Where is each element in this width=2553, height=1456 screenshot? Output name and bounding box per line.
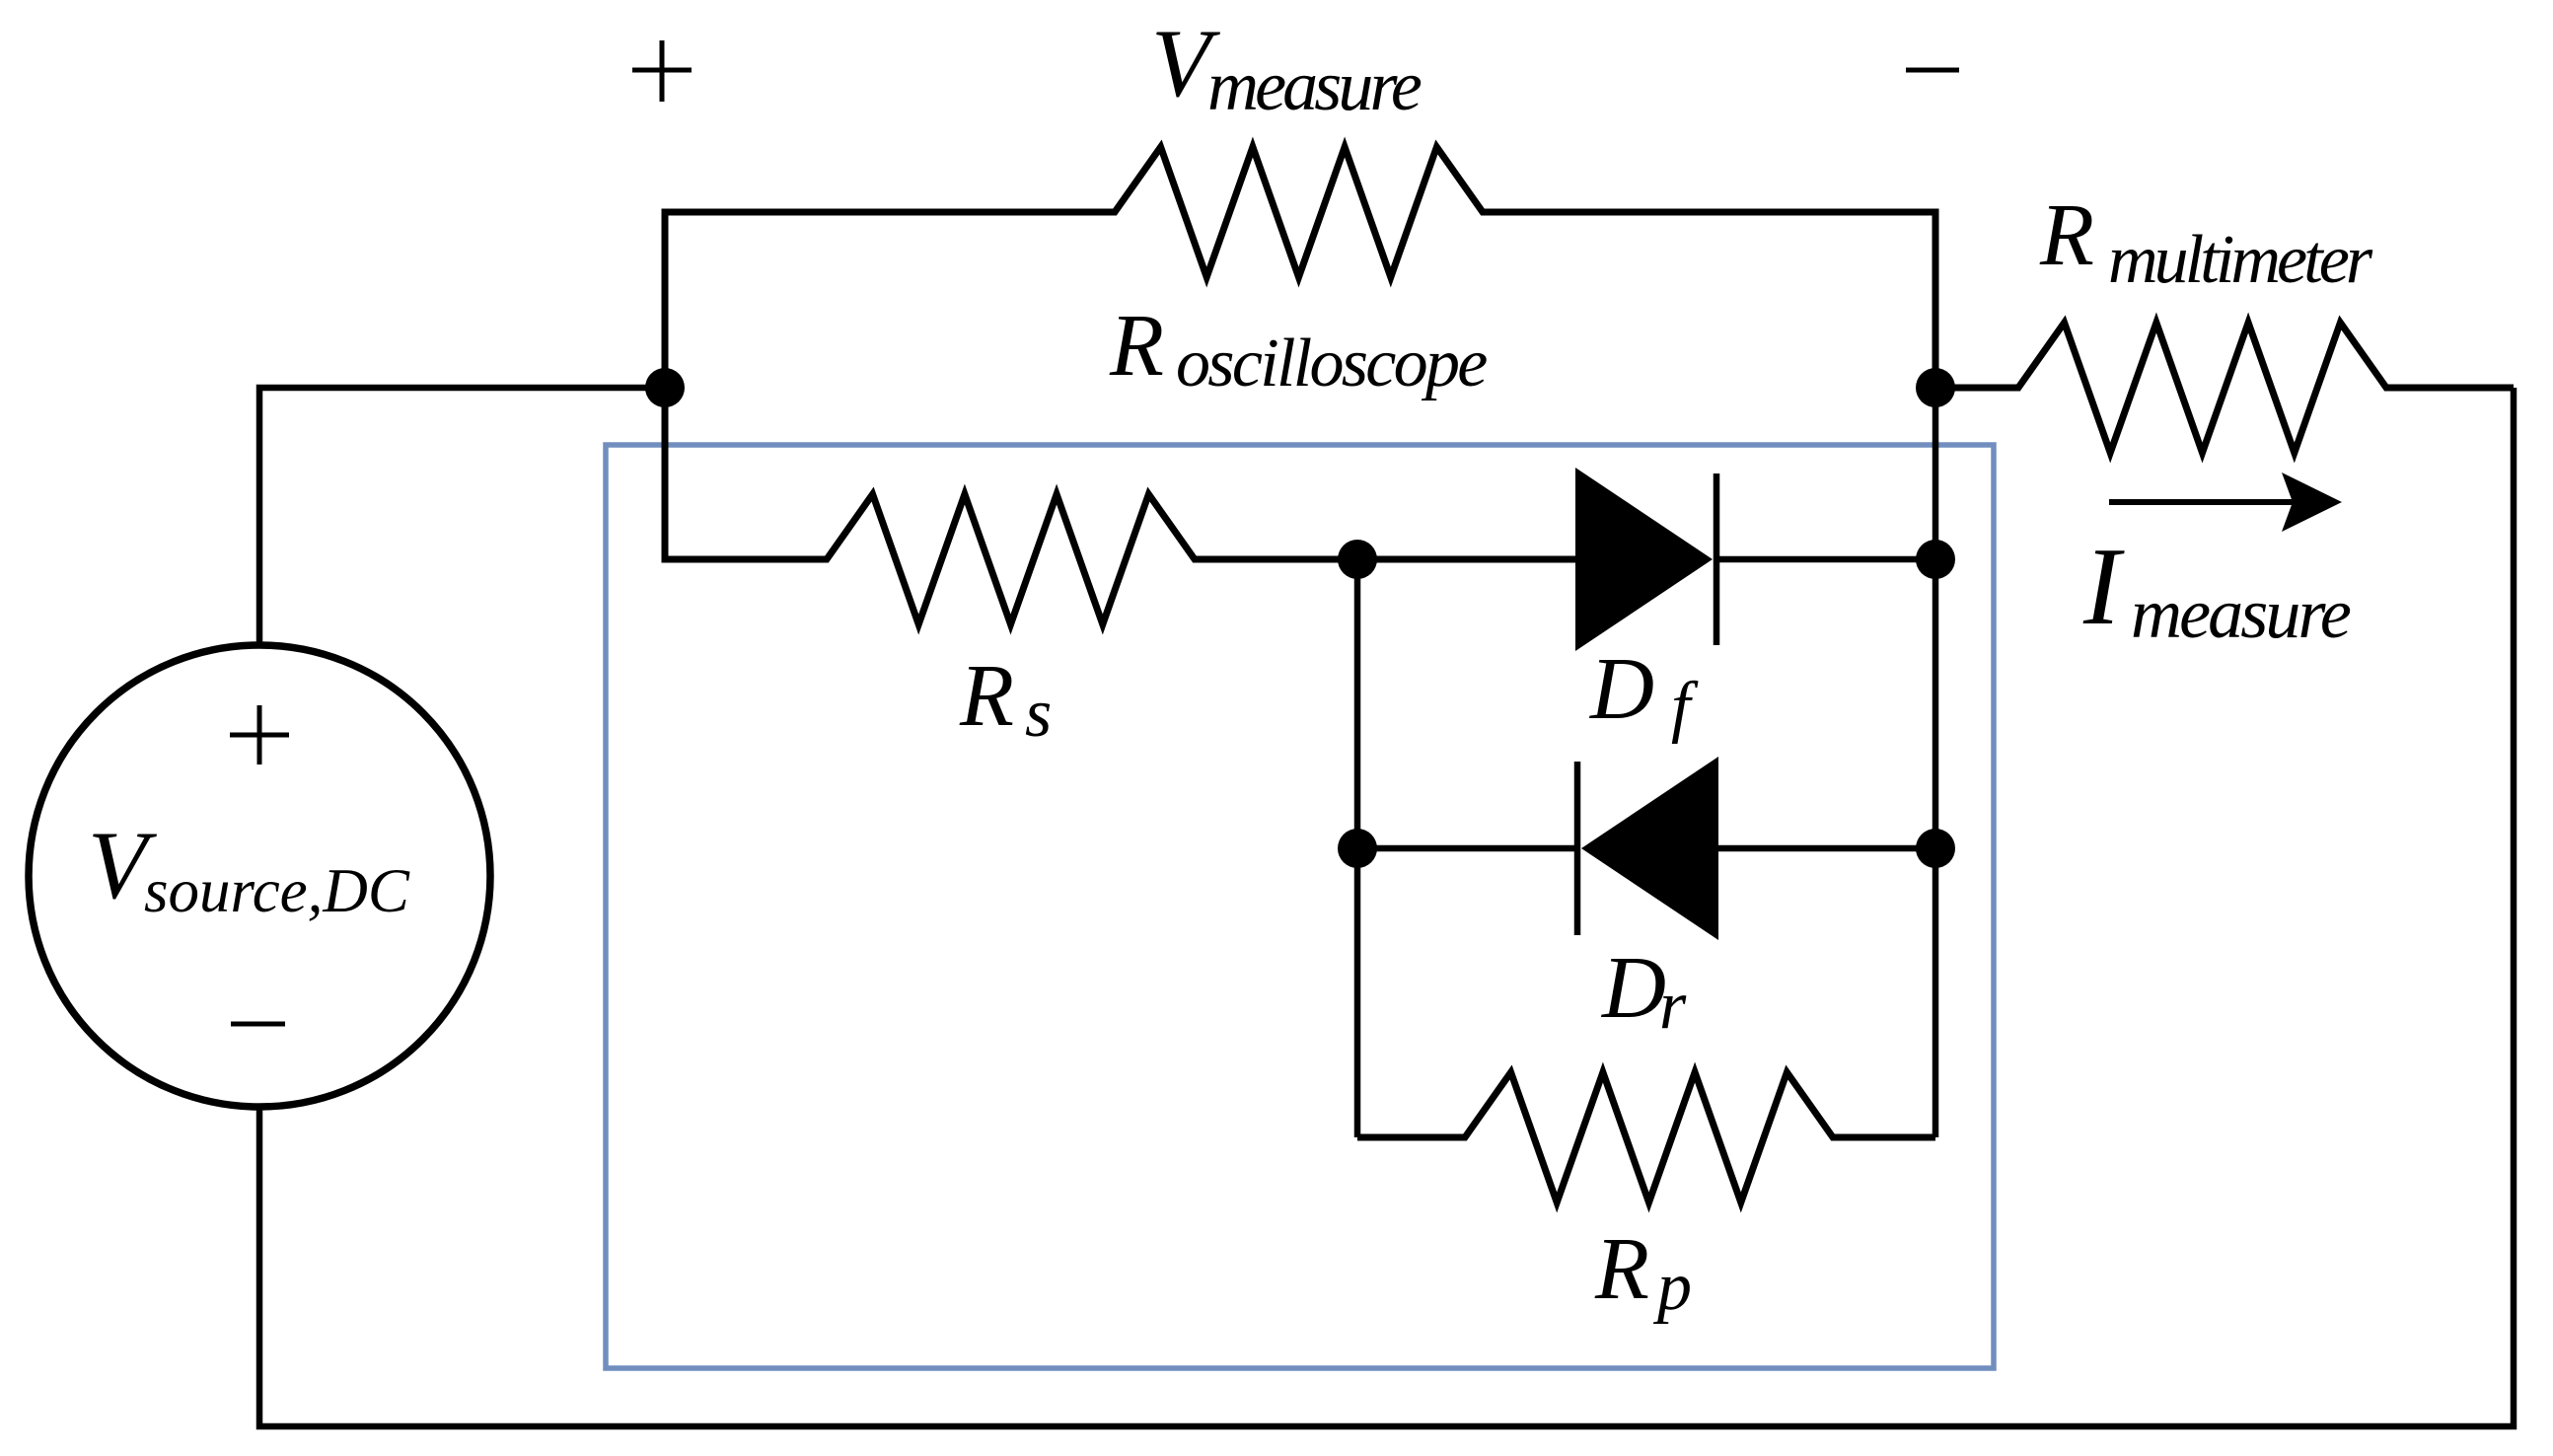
svg-text:I: I	[2082, 526, 2125, 648]
svg-text:source,DC: source,DC	[144, 856, 410, 925]
svg-text:measure: measure	[2131, 574, 2351, 653]
svg-text:R: R	[1109, 297, 1164, 395]
svg-text:p: p	[1652, 1249, 1692, 1325]
svg-text:D: D	[1600, 939, 1666, 1037]
svg-text:D: D	[1588, 640, 1654, 738]
svg-text:oscilloscope: oscilloscope	[1176, 326, 1487, 401]
svg-text:r: r	[1659, 968, 1687, 1044]
svg-text:R: R	[2039, 186, 2094, 284]
svg-text:measure: measure	[1207, 46, 1422, 125]
svg-text:R: R	[1594, 1220, 1649, 1318]
svg-text:multimeter: multimeter	[2108, 222, 2373, 298]
svg-text:s: s	[1025, 676, 1052, 752]
svg-text:R: R	[959, 647, 1014, 745]
